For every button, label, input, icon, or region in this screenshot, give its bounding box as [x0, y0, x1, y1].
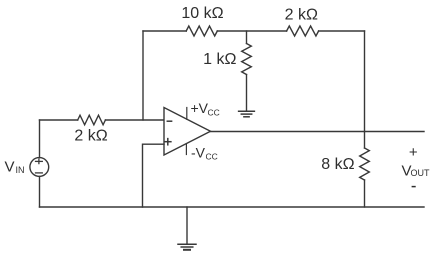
wire: top rail middle segment	[217, 30, 286, 32]
wire: 1 kOhm branch top lead	[246, 31, 248, 44]
svg-text:CC: CC	[206, 152, 218, 162]
wire: output	[211, 131, 425, 133]
op-amp U1 -Vcc pin tick	[185, 144, 187, 155]
resistor R1 10 kOhm zigzag	[186, 26, 217, 36]
resistor R3 1 kOhm zigzag	[242, 44, 252, 75]
ground: main stem	[186, 207, 188, 244]
svg-text:10 kΩ: 10 kΩ	[181, 5, 223, 22]
wire: 8 kOhm bottom lead	[364, 180, 366, 207]
source VIN minus mark	[36, 172, 43, 174]
svg-text:1 kΩ: 1 kΩ	[203, 51, 236, 68]
svg-text:2 kΩ: 2 kΩ	[285, 7, 318, 24]
svg-text:OUT: OUT	[411, 168, 431, 178]
wire: top rail left segment	[143, 30, 186, 32]
source VIN circle	[30, 158, 49, 177]
source VIN plus mark	[36, 159, 43, 163]
wire: VIN bottom lead	[39, 176, 41, 207]
wire: non-inverting input to ground rail	[143, 144, 165, 207]
wire: 8 kOhm top lead	[364, 132, 366, 149]
wire: 1 kOhm to ground	[246, 75, 248, 111]
svg-text:+V: +V	[191, 100, 209, 116]
wire: VIN top lead	[39, 120, 41, 158]
resistor R4 2 kOhm input zigzag	[78, 115, 106, 125]
op-amp U1 non-inverting input plus sign	[165, 139, 171, 145]
svg-text:-V: -V	[191, 145, 206, 161]
wire: right vertical to output node	[364, 31, 366, 132]
op-amp U1 triangle	[164, 108, 211, 156]
svg-text:CC: CC	[208, 108, 220, 118]
ground: 1 kOhm branch	[239, 111, 255, 117]
wire: to inverting input	[105, 119, 164, 121]
wire: input wire	[40, 119, 78, 121]
label: output minus terminal	[412, 186, 416, 188]
wire: left feedback vertical	[142, 31, 144, 120]
svg-text:8 kΩ: 8 kΩ	[321, 156, 354, 173]
resistor R5 8 kOhm zigzag	[360, 148, 370, 180]
svg-text:2 kΩ: 2 kΩ	[74, 128, 107, 145]
wire: bottom rail	[40, 206, 425, 208]
ground: main bars	[178, 244, 196, 250]
op-amp U1 +Vcc pin tick	[186, 108, 188, 120]
svg-text:V: V	[5, 158, 15, 175]
op-amp U1 inverting input minus sign	[167, 120, 171, 122]
wire: top rail right segment	[319, 30, 365, 32]
svg-text:+: +	[409, 144, 418, 161]
resistor R2 2 kOhm zigzag	[287, 26, 319, 36]
svg-text:IN: IN	[16, 165, 25, 175]
